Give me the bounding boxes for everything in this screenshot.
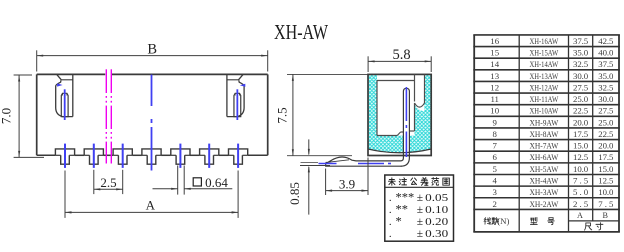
svg-text:27.5: 27.5: [598, 106, 614, 116]
svg-text:4: 4: [492, 176, 497, 186]
svg-text:XH-5AW: XH-5AW: [529, 164, 559, 174]
svg-text:±: ±: [417, 228, 423, 240]
svg-text:5.0: 5.0: [573, 187, 589, 197]
specification table: [473, 35, 620, 232]
svg-text:17.5: 17.5: [598, 152, 614, 162]
svg-text:3: 3: [492, 187, 497, 197]
dimension 7.5 (side height): [275, 74, 369, 155]
svg-text:±: ±: [417, 216, 423, 228]
front view: left latch slot with contact: [56, 74, 73, 120]
dimension B (top overall width): [37, 41, 268, 71]
svg-text:*: *: [396, 214, 402, 228]
svg-text:XH-2AW: XH-2AW: [529, 199, 559, 209]
front view: magenta break lines: [106, 69, 111, 163]
svg-text:12.5: 12.5: [598, 176, 614, 186]
front view: vertical centerline through middle pin: [151, 75, 153, 171]
svg-text:32.5: 32.5: [598, 82, 614, 92]
svg-text:11: 11: [490, 94, 498, 104]
svg-text:XH-12AW: XH-12AW: [529, 82, 558, 92]
svg-text:XH-10AW: XH-10AW: [529, 106, 558, 116]
svg-text:32.5: 32.5: [573, 59, 589, 69]
svg-text:0.05: 0.05: [425, 192, 449, 204]
svg-text:0.64: 0.64: [205, 175, 228, 190]
svg-text:7.5: 7.5: [275, 107, 290, 123]
svg-text:10.0: 10.0: [573, 164, 589, 174]
svg-text:XH-9AW: XH-9AW: [529, 117, 559, 127]
svg-text:2: 2: [492, 199, 496, 209]
svg-text:.: .: [389, 204, 392, 216]
svg-text:35.0: 35.0: [573, 48, 589, 58]
svg-text:XH-4AW: XH-4AW: [529, 176, 559, 186]
svg-text:37.5: 37.5: [598, 59, 614, 69]
svg-text:5.8: 5.8: [392, 47, 410, 63]
svg-text:0.20: 0.20: [425, 216, 449, 228]
svg-text:22.5: 22.5: [598, 129, 614, 139]
svg-text:±: ±: [417, 204, 423, 216]
svg-text:.: .: [389, 216, 392, 228]
svg-text:10.0: 10.0: [598, 187, 614, 197]
svg-text:20.0: 20.0: [598, 141, 614, 151]
tolerance note box: [385, 175, 454, 241]
svg-text:9: 9: [492, 117, 497, 127]
svg-text:XH-8AW: XH-8AW: [529, 129, 559, 139]
svg-text:2.5: 2.5: [100, 175, 116, 190]
svg-text:7.5: 7.5: [573, 176, 589, 186]
svg-text:(N): (N): [497, 216, 509, 226]
svg-text:30.0: 30.0: [598, 94, 614, 104]
svg-text:7.0: 7.0: [0, 108, 14, 124]
svg-text:XH-15AW: XH-15AW: [529, 48, 558, 58]
svg-text:XH-11AW: XH-11AW: [529, 94, 558, 104]
svg-text:B: B: [602, 211, 608, 220]
dimension 5.8 (side width): [368, 47, 431, 72]
svg-text:.: .: [389, 192, 392, 204]
svg-text:XH-3AW: XH-3AW: [529, 187, 559, 197]
svg-text:35.0: 35.0: [598, 71, 614, 81]
dimension 7.0 (left height): [0, 75, 44, 157]
svg-text:25.0: 25.0: [598, 117, 614, 127]
svg-text:37.5: 37.5: [573, 36, 589, 46]
svg-text:0.85: 0.85: [287, 182, 302, 205]
svg-text:0.10: 0.10: [425, 204, 449, 216]
side view: inner slot lines: [377, 74, 425, 135]
svg-text:12: 12: [490, 82, 499, 92]
svg-text:3.9: 3.9: [339, 177, 355, 192]
svg-text:30.0: 30.0: [573, 71, 589, 81]
dimension 0.85 (standoff): [287, 139, 330, 214]
dimension 2.5 (pin pitch): [94, 170, 123, 194]
side view: housing outline: [368, 74, 431, 155]
svg-text:7.5: 7.5: [598, 199, 614, 209]
svg-text:25.0: 25.0: [573, 94, 589, 104]
svg-text:22.5: 22.5: [573, 106, 589, 116]
svg-text:6: 6: [492, 152, 497, 162]
side view: pin centerlines (blue): [319, 87, 407, 164]
svg-text:15.0: 15.0: [598, 164, 614, 174]
svg-text:40.0: 40.0: [598, 48, 614, 58]
svg-text:14: 14: [490, 59, 499, 69]
svg-text:.: .: [389, 228, 392, 240]
svg-text:7: 7: [492, 141, 497, 151]
svg-text:17.5: 17.5: [573, 129, 589, 139]
side view: hatched housing section: [368, 74, 431, 158]
dimension A (pin span): [65, 171, 238, 218]
dimension □0.64 (square pin size): [153, 166, 233, 195]
svg-text:A: A: [146, 197, 156, 212]
svg-text:XH-16AW: XH-16AW: [529, 36, 558, 46]
svg-text:XH-6AW: XH-6AW: [529, 152, 559, 162]
svg-text:2.5: 2.5: [573, 199, 589, 209]
svg-text:27.5: 27.5: [573, 82, 589, 92]
svg-text:0.30: 0.30: [425, 228, 449, 240]
svg-text:16: 16: [490, 36, 499, 46]
svg-text:XH-13AW: XH-13AW: [529, 71, 558, 81]
front view: bottom edge with pin tabs and bosses: [37, 149, 268, 164]
svg-text:A: A: [577, 211, 583, 220]
svg-text:±: ±: [417, 192, 423, 204]
svg-text:13: 13: [490, 71, 499, 81]
svg-text:42.5: 42.5: [598, 36, 614, 46]
svg-text:10: 10: [490, 106, 499, 116]
svg-text:XH-14AW: XH-14AW: [529, 59, 558, 69]
svg-text:20.0: 20.0: [573, 117, 589, 127]
dimension 3.9 (leg length): [326, 158, 368, 196]
front view: connector body outline: [37, 74, 268, 155]
svg-text:5: 5: [492, 164, 497, 174]
front view: right latch slot with contact: [227, 74, 245, 120]
svg-text:B: B: [147, 41, 157, 57]
svg-text:8: 8: [492, 129, 497, 139]
svg-text:15.0: 15.0: [573, 141, 589, 151]
svg-text:XH-7AW: XH-7AW: [529, 141, 559, 151]
svg-text:XH-AW: XH-AW: [274, 20, 329, 44]
svg-text:15: 15: [490, 48, 499, 58]
front view: 7 contact pins (blue): [65, 144, 238, 168]
side view: right-angle pin: [326, 88, 410, 166]
svg-text:12.5: 12.5: [573, 152, 589, 162]
